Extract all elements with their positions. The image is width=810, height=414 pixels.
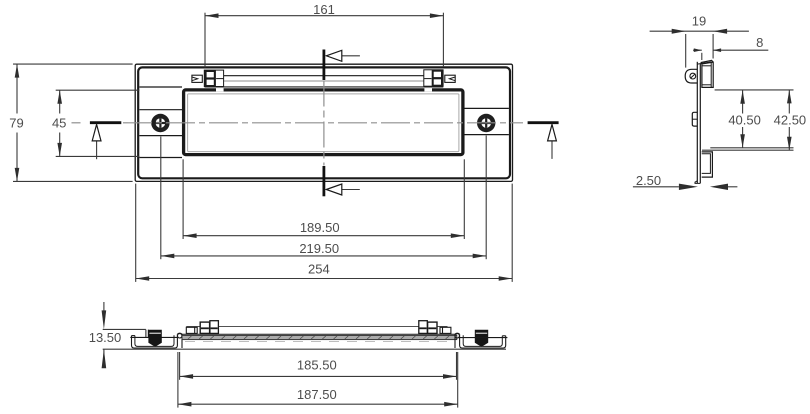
- right margin line band upper: [465, 107, 509, 109]
- right wing end wall cap: [502, 335, 505, 337]
- dimension 8: [693, 48, 768, 60]
- svg-text:42.50: 42.50: [774, 113, 807, 128]
- dimension 219.50: [161, 136, 486, 260]
- svg-text:185.50: 185.50: [297, 358, 337, 373]
- right screw blob: [475, 330, 488, 347]
- faceplate rounded frame: [138, 67, 510, 178]
- left wing wall: [132, 335, 135, 337]
- dimension 13.50: [102, 302, 506, 368]
- hinge strip line 1: [205, 75, 444, 77]
- left screw blob: [148, 330, 161, 347]
- dimension 45: [56, 90, 140, 156]
- svg-text:219.50: 219.50: [299, 241, 339, 256]
- horizontal centerline: [72, 122, 524, 124]
- seal band: [182, 335, 457, 339]
- section marker top: [324, 50, 360, 81]
- side lug hole: [690, 73, 696, 79]
- BOTTOM VIEW: [130, 330, 182, 348]
- flap-top notch under left latch: [216, 88, 224, 91]
- svg-text:79: 79: [9, 115, 23, 130]
- right latch: [424, 70, 455, 86]
- left wing channel: [132, 334, 178, 348]
- svg-text:13.50: 13.50: [89, 330, 122, 345]
- side top block: [702, 62, 713, 87]
- dimension 254: [136, 184, 513, 282]
- svg-text:2.50: 2.50: [636, 173, 661, 188]
- left wing top lip: [130, 336, 178, 338]
- aperture line: [186, 325, 447, 327]
- dimension 189.50: [183, 159, 464, 239]
- dimension 19: [650, 29, 749, 68]
- outer frame: [135, 64, 512, 181]
- flap-top notch under right latch: [424, 88, 432, 91]
- dimension 79: [13, 64, 133, 181]
- right hook ring: [455, 334, 459, 338]
- side lug: [685, 69, 697, 83]
- bar lower line: [185, 341, 454, 343]
- bottom left latch blocks: [186, 321, 218, 334]
- side plate: [696, 62, 698, 184]
- svg-text:40.50: 40.50: [728, 113, 761, 128]
- left margin line top: [139, 86, 182, 88]
- FRONT VIEW: [135, 64, 512, 181]
- svg-text:19: 19: [692, 14, 706, 29]
- right latch arm: [445, 75, 455, 82]
- left margin line band upper: [139, 109, 182, 111]
- dimension 2.50: [633, 184, 738, 190]
- left latch arm: [192, 75, 202, 82]
- left margin line bottom: [139, 157, 182, 159]
- seal band hatch ticks: [188, 336, 449, 339]
- section marker left: [90, 123, 121, 160]
- section marker right: [528, 123, 559, 159]
- left hook ring: [178, 334, 182, 338]
- left hook post: [181, 334, 183, 348]
- right wing channel: [460, 334, 506, 348]
- vertical centerline: [323, 81, 325, 166]
- svg-text:254: 254: [308, 262, 330, 277]
- left latch: [192, 70, 224, 86]
- dimension 185.50: [180, 352, 457, 380]
- dimension 40.50: [710, 90, 793, 148]
- svg-text:189.50: 189.50: [300, 220, 340, 235]
- side top cap: [701, 60, 714, 62]
- bottom right latch blocks: [419, 321, 451, 334]
- left screw: [151, 114, 169, 132]
- side clip bump: [692, 112, 697, 126]
- svg-text:45: 45: [52, 115, 66, 130]
- dimension 161: [205, 13, 443, 68]
- svg-text:187.50: 187.50: [297, 387, 337, 402]
- bar top line: [182, 333, 457, 335]
- dimension 42.50: [702, 90, 794, 150]
- flap inner line: [188, 94, 459, 152]
- right screw: [477, 114, 495, 132]
- hinge strip line 3: [205, 86, 444, 88]
- svg-text:8: 8: [756, 35, 763, 50]
- side bottom block: [702, 152, 713, 177]
- right hook post: [454, 334, 456, 348]
- right wing top: [459, 337, 508, 339]
- SIDE VIEW: [685, 60, 713, 183]
- left margin line band lower: [139, 135, 182, 137]
- hinge strip line 2 (gray): [205, 80, 444, 82]
- right margin line band lower: [465, 134, 509, 136]
- section marker bottom: [324, 166, 360, 196]
- dimension 187.50: [178, 352, 458, 408]
- svg-text:161: 161: [313, 2, 335, 17]
- flap: [184, 90, 463, 155]
